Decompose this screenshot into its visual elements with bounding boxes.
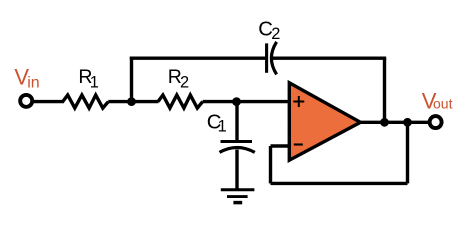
top rail left segment to C2 — [130, 57, 267, 60]
ground bar 3 — [233, 201, 242, 205]
op-amp + input marking — [293, 101, 304, 103]
capacitor C2 curved plate — [271, 42, 276, 75]
wire R2 to node B — [203, 100, 237, 103]
wire R1 to node A — [108, 100, 131, 103]
resistor R2 — [158, 95, 203, 108]
node D (negative feedback junction) — [403, 118, 412, 127]
ground bar 2 — [227, 195, 248, 198]
wire node A up to top rail — [130, 57, 133, 102]
op-amp - input marking — [294, 143, 303, 145]
node C (C2 feedback junction) — [380, 118, 389, 127]
feedback wire from top rail down to output node C — [383, 58, 386, 122]
node B — [232, 97, 241, 106]
op-amp U1 body — [289, 83, 360, 160]
wire node A to R2 — [132, 100, 159, 103]
resistor R1 — [63, 95, 109, 108]
wire node B down to C1 — [235, 102, 238, 142]
wire node B to op-amp + input — [237, 100, 290, 103]
feedback wire right vertical up to node D — [406, 122, 409, 183]
top rail right segment from C2 to feedback corner — [272, 57, 386, 60]
feedback wire bottom horizontal — [271, 182, 408, 185]
input terminal Vin — [20, 95, 32, 107]
feedback wire left vertical — [269, 146, 272, 183]
capacitor C2 left plate — [265, 43, 268, 72]
output wire — [361, 121, 429, 124]
ground bar 1 — [221, 188, 255, 191]
node A — [127, 97, 136, 106]
wire C1 to ground — [235, 150, 238, 190]
output terminal Vout — [430, 116, 442, 128]
wire Vin terminal to R1 — [32, 100, 64, 103]
capacitor C1 top plate — [221, 140, 253, 143]
wire op-amp - input — [271, 144, 290, 147]
capacitor C1 curved plate — [220, 148, 255, 153]
